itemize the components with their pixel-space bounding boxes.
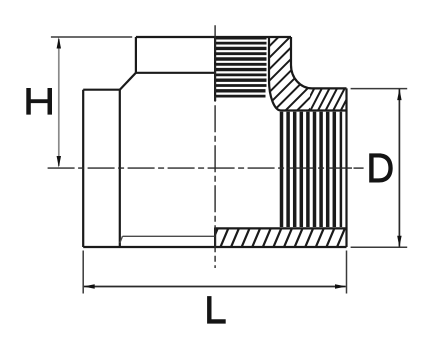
dimension H label (26, 88, 52, 115)
wire section boundary lower (214, 228, 216, 248)
dimension H arrow down (57, 156, 61, 168)
wire left end face (82, 90, 84, 247)
dimension H arrow up (57, 37, 61, 49)
hatch elbow wall (186, 28, 426, 118)
wire right end face (345, 88, 347, 247)
node horizontal centerline (48, 167, 352, 169)
wire branch right outer wall (290, 37, 292, 65)
dimension L arrow left (83, 284, 95, 288)
wire bottom outline (83, 246, 346, 248)
wire outer fillet (291, 65, 312, 88)
dimension H extension line top (51, 36, 132, 38)
wire branch bore wall (268, 37, 270, 80)
dimension L arrow right (335, 284, 347, 288)
node vertical centerline (214, 25, 216, 268)
hatch right body top band (302, 87, 361, 112)
wire branch left wall (135, 37, 137, 73)
wire right bore top (281, 109, 347, 111)
dimension L extension line right (346, 251, 348, 294)
wire section boundary upper (214, 37, 216, 102)
wire inner fillet (269, 80, 281, 111)
dimension L label (207, 296, 226, 324)
wire socket mouth top (83, 89, 120, 91)
dimension D line (398, 89, 400, 247)
dimension D label (369, 153, 393, 182)
wire socket inner thin line (120, 236, 215, 243)
wire top outline of branch (136, 36, 291, 38)
wire socket bottom chamfer (120, 236, 123, 243)
wire shoulder chamfer (120, 73, 136, 90)
hatch bottom band (209, 227, 356, 249)
dimension L line (84, 286, 346, 288)
dimension D extension line bottom (351, 246, 408, 248)
dimension D arrow up (397, 89, 401, 101)
wire socket mouth vertical (119, 90, 121, 246)
dimension H line (58, 39, 60, 166)
wire body mid shoulder line (136, 72, 215, 74)
wire right bore bottom (215, 227, 346, 229)
dimension D arrow down (397, 236, 401, 248)
wire right body top (312, 87, 347, 89)
right port threads (282, 112, 341, 227)
dimension L extension line left (82, 251, 84, 294)
dimension D extension line top (351, 88, 408, 90)
top branch threads (215, 38, 266, 96)
